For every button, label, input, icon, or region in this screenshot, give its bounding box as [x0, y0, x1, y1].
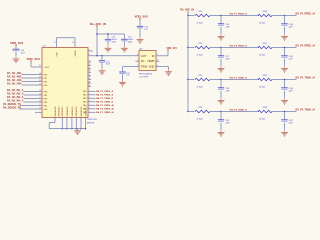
svg-text:VDD_3V3: VDD_3V3 [26, 57, 40, 61]
svg-text:VDD_3V3: VDD_3V3 [134, 14, 148, 18]
svg-text:RA_P1_TANK_AI: RA_P1_TANK_AI [296, 77, 316, 80]
svg-text:RA_P1_PRES_AI: RA_P1_PRES_AI [96, 104, 114, 107]
svg-text:Ra_ADC_IN: Ra_ADC_IN [90, 22, 106, 26]
svg-text:10.0kΩ: 10.0kΩ [259, 87, 266, 89]
svg-text:0603: 0603 [128, 41, 132, 43]
svg-text:2.5V VREF: 2.5V VREF [139, 76, 149, 78]
svg-text:4: 4 [89, 100, 90, 102]
svg-text:RA_P2_PRES_AI: RA_P2_PRES_AI [96, 108, 114, 111]
svg-text:14: 14 [39, 93, 41, 95]
svg-text:RA_P1_PRES_A: RA_P1_PRES_A [96, 90, 113, 93]
svg-text:13: 13 [39, 90, 41, 92]
svg-text:34: 34 [89, 75, 91, 77]
svg-text:VDD: VDD [56, 52, 58, 57]
svg-text:32: 32 [89, 68, 91, 70]
svg-text:59: 59 [39, 76, 41, 78]
svg-text:RA_ADC_IN: RA_ADC_IN [180, 8, 194, 11]
svg-text:R103: R103 [263, 107, 268, 109]
svg-text:GNDAIN4X: GNDAIN4X [71, 106, 74, 117]
svg-text:NC: NC [141, 59, 145, 63]
svg-text:REF5025AIDGK: REF5025AIDGK [139, 72, 153, 75]
svg-text:U16: U16 [139, 49, 142, 51]
svg-text:10.0kΩ: 10.0kΩ [259, 23, 266, 25]
svg-text:7: 7 [89, 111, 90, 113]
svg-text:3: 3 [89, 97, 90, 99]
svg-text:4.75kΩ: 4.75kΩ [197, 23, 204, 25]
svg-text:GNDAIN2X: GNDAIN2X [61, 106, 64, 117]
svg-text:R101: R101 [263, 43, 268, 45]
svg-text:8: 8 [89, 54, 90, 56]
svg-text:GNDAIN6X: GNDAIN6X [80, 106, 83, 117]
svg-text:16: 16 [39, 100, 41, 102]
svg-text:RA_P1_PRES_AI: RA_P1_PRES_AI [296, 13, 316, 16]
svg-text:VDD_3V3: VDD_3V3 [10, 41, 24, 45]
svg-text:0603: 0603 [112, 41, 116, 43]
svg-text:RA_P2_PRES_AI: RA_P2_PRES_AI [296, 45, 316, 48]
svg-text:15: 15 [39, 97, 41, 99]
svg-text:RA_P2_PRES_A: RA_P2_PRES_A [230, 45, 247, 48]
svg-text:VDDA: VDDA [74, 50, 77, 56]
svg-text:R102: R102 [263, 75, 268, 77]
svg-text:TM4C123G: TM4C123G [87, 119, 97, 121]
svg-text:6: 6 [89, 107, 90, 109]
svg-text:4.75kΩ: 4.75kΩ [197, 119, 204, 121]
svg-text:GNDAIN7X: GNDAIN7X [84, 106, 87, 117]
svg-text:RA_P1_PRES_A: RA_P1_PRES_A [230, 13, 247, 16]
svg-text:36: 36 [89, 82, 91, 84]
svg-text:37: 37 [89, 85, 91, 87]
svg-text:34: 34 [39, 65, 41, 67]
svg-text:30: 30 [89, 61, 91, 63]
svg-text:58: 58 [39, 73, 41, 75]
svg-text:RA_AD_AN4: RA_AD_AN4 [7, 83, 22, 86]
svg-text:4.75kΩ: 4.75kΩ [197, 55, 204, 57]
svg-text:U15: U15 [43, 46, 46, 48]
svg-text:RA_P2_PRES_A: RA_P2_PRES_A [96, 94, 113, 97]
svg-text:TRIM: TRIM [141, 65, 147, 69]
svg-text:RA_DEBUG_RX: RA_DEBUG_RX [3, 107, 21, 110]
svg-text:VDD_3V3: VDD_3V3 [166, 48, 177, 50]
svg-text:10.0kΩ: 10.0kΩ [259, 119, 266, 121]
svg-text:9: 9 [89, 49, 90, 51]
svg-text:GNDAIN5X: GNDAIN5X [75, 106, 78, 117]
svg-text:40: 40 [72, 42, 74, 44]
svg-text:1: 1 [89, 90, 90, 92]
svg-text:RA_P2_TANK_A: RA_P2_TANK_A [230, 109, 247, 112]
svg-text:4.75kΩ: 4.75kΩ [197, 87, 204, 89]
svg-text:GNDAIN0X: GNDAIN0X [54, 106, 57, 117]
svg-text:RA_P2_TANK_AI: RA_P2_TANK_AI [296, 109, 316, 112]
svg-text:10.0kΩ: 10.0kΩ [259, 55, 266, 57]
svg-text:21: 21 [54, 42, 56, 44]
svg-text:RA_P1_TANK_A: RA_P1_TANK_A [230, 77, 247, 80]
svg-text:5: 5 [89, 104, 90, 106]
svg-text:33: 33 [89, 71, 91, 73]
svg-text:TEMP: TEMP [147, 59, 154, 63]
svg-text:IN: IN [152, 54, 155, 58]
svg-text:GND: GND [149, 65, 155, 69]
svg-text:R97: R97 [199, 75, 202, 77]
svg-text:RA_P1_TANK_AI: RA_P1_TANK_AI [96, 111, 114, 114]
svg-text:OUT: OUT [141, 54, 147, 58]
svg-text:60: 60 [39, 80, 41, 82]
svg-text:R95: R95 [199, 11, 202, 13]
svg-text:R96: R96 [199, 43, 202, 45]
svg-text:31: 31 [89, 64, 91, 66]
svg-text:R98: R98 [199, 107, 202, 109]
svg-text:+VDD: +VDD [44, 67, 50, 69]
svg-text:RA_P1_TANK_A: RA_P1_TANK_A [96, 97, 113, 100]
svg-text:GNDAIN1X: GNDAIN1X [57, 106, 60, 117]
svg-text:61: 61 [39, 83, 41, 85]
svg-text:R100: R100 [263, 11, 268, 13]
svg-text:17: 17 [39, 104, 41, 106]
svg-text:RA_P2_TANK_A: RA_P2_TANK_A [96, 101, 113, 104]
svg-text:18: 18 [39, 107, 41, 109]
svg-text:GNDAIN3X: GNDAIN3X [66, 106, 69, 117]
svg-text:2: 2 [89, 93, 90, 95]
svg-text:35: 35 [89, 78, 91, 80]
svg-text:AH6PMI: AH6PMI [87, 121, 95, 124]
